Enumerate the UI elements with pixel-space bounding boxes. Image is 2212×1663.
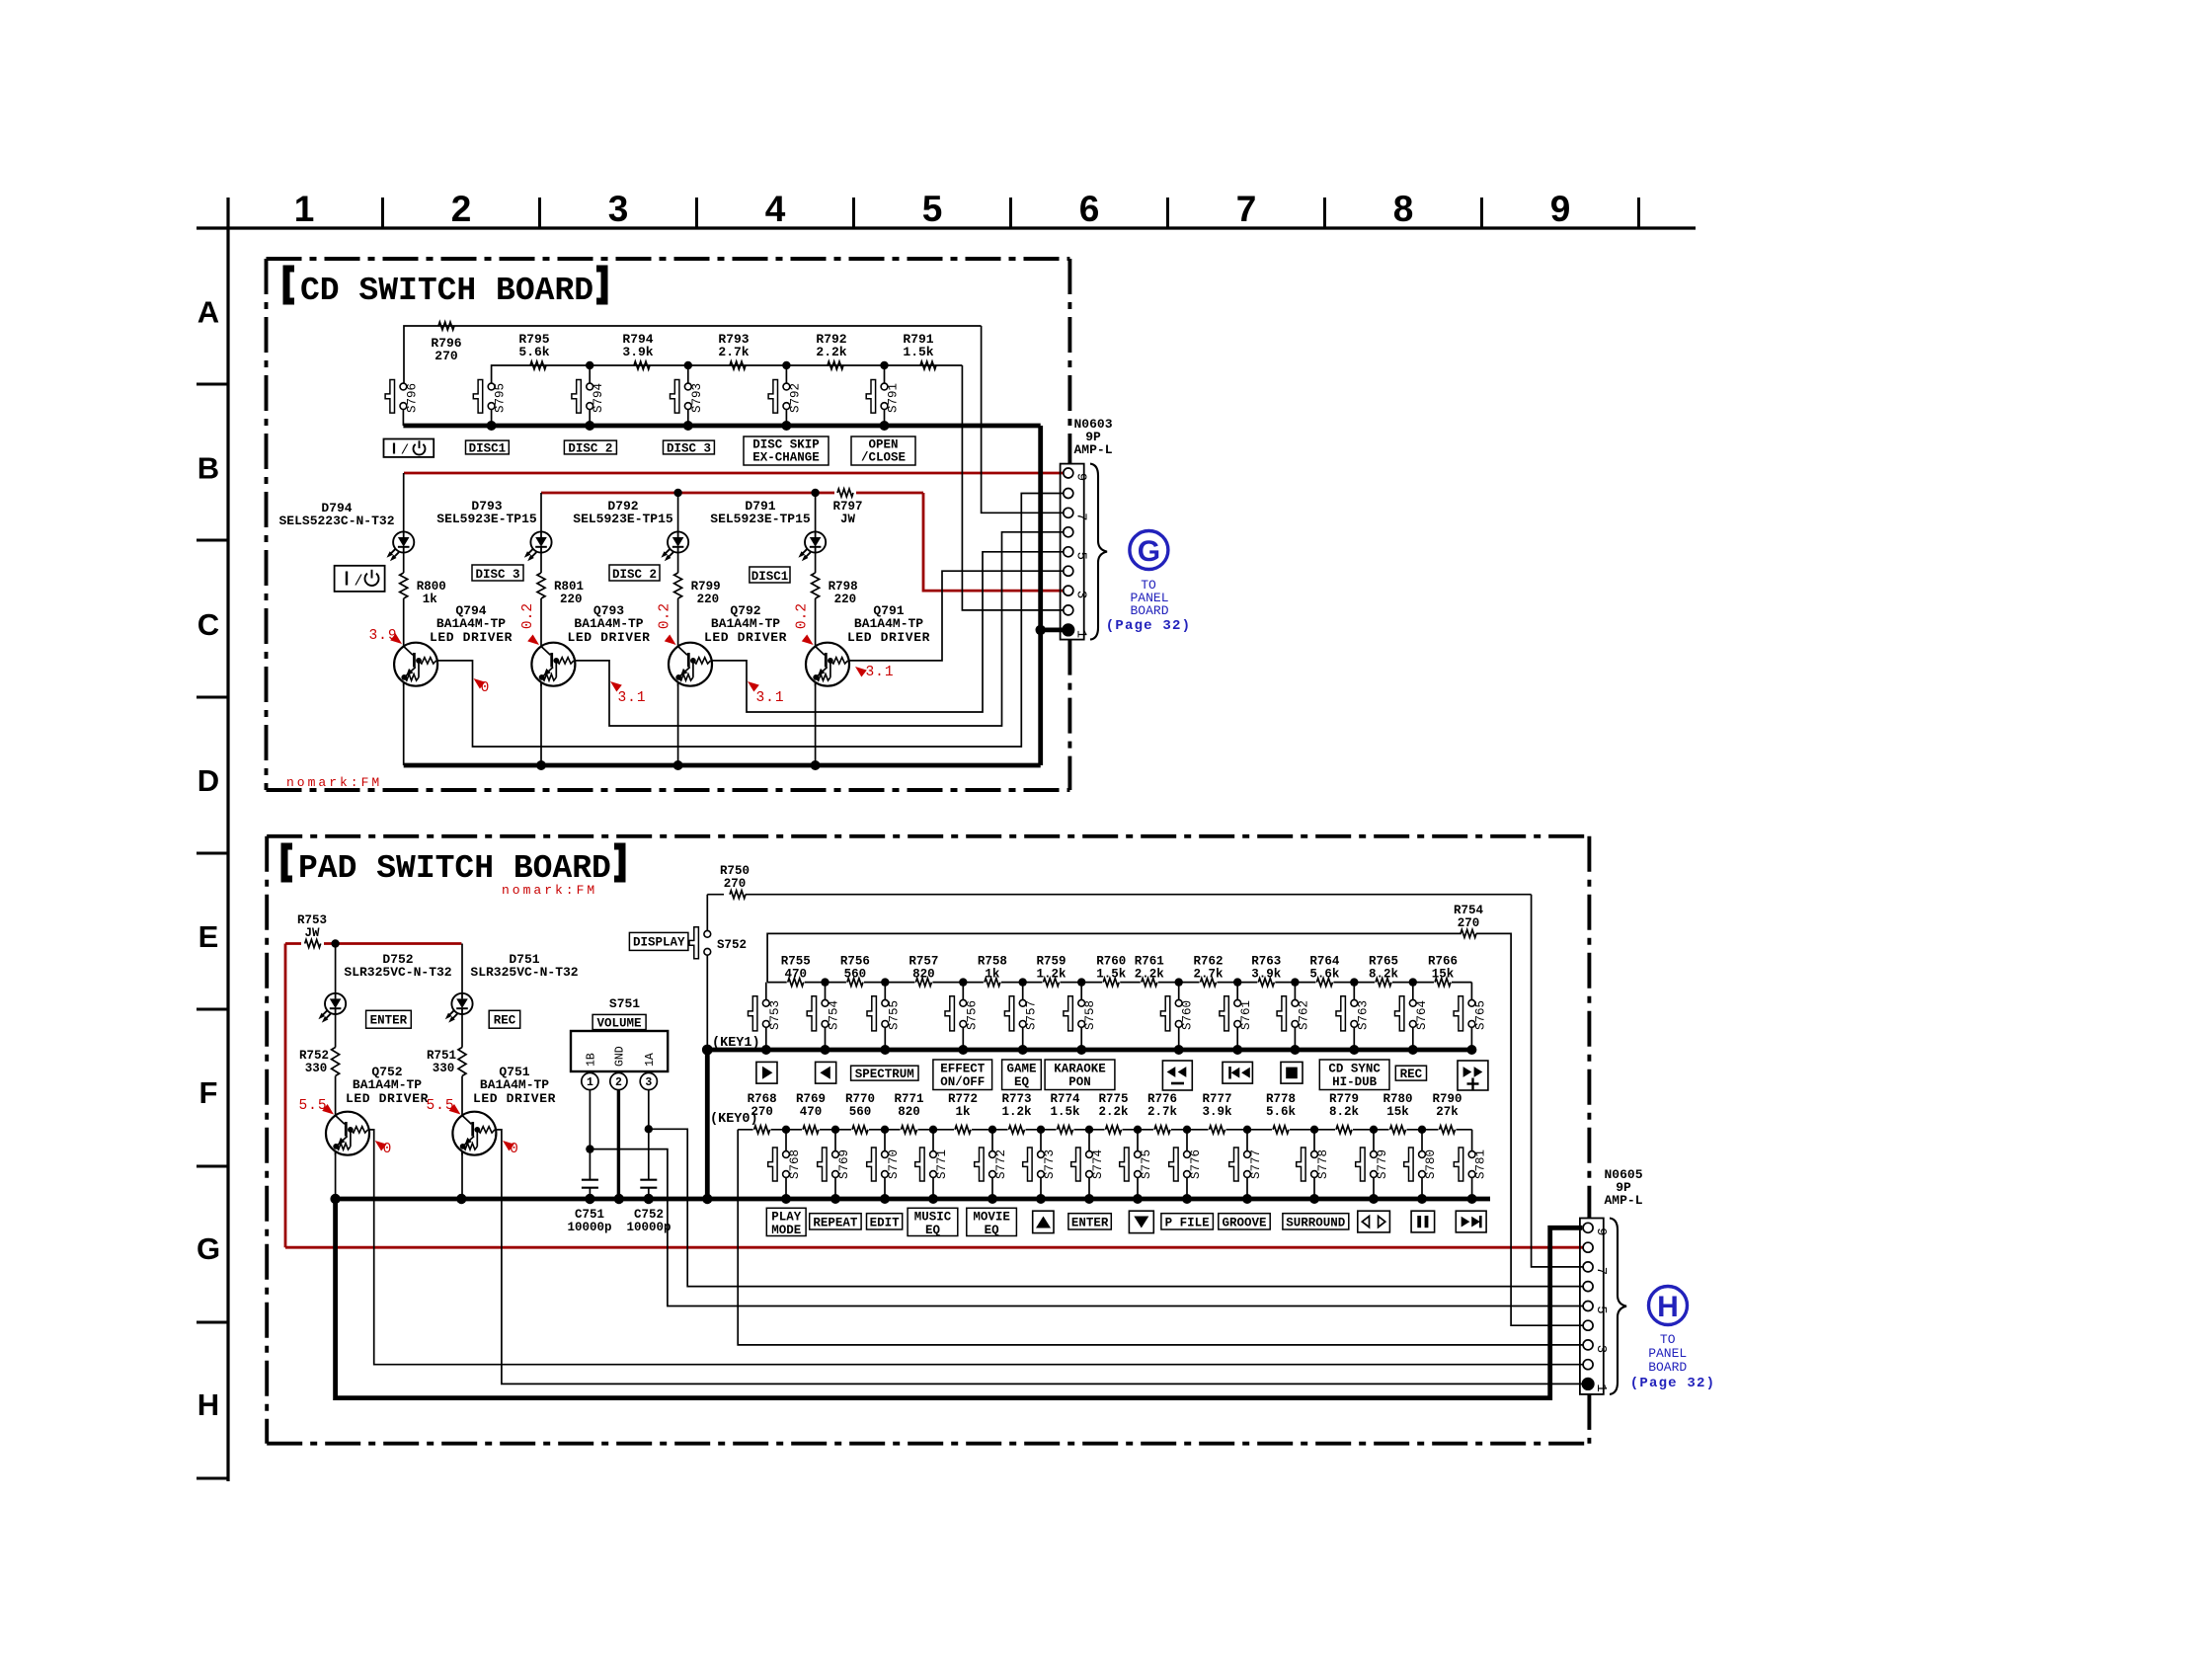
svg-text:P FILE: P FILE xyxy=(1165,1216,1210,1229)
wire Q794 output to pin 8 xyxy=(438,494,1065,748)
wire LED column x=686.6 xyxy=(677,493,679,531)
svg-text:S752: S752 xyxy=(717,938,747,952)
resistor R765 xyxy=(1375,979,1392,988)
resistor R799 xyxy=(674,573,682,598)
switch S755 xyxy=(884,983,886,1000)
svg-text:MOVIE: MOVIE xyxy=(973,1211,1010,1225)
junction dots red LED rail xyxy=(673,489,681,497)
top ruler line xyxy=(197,226,1696,229)
icon box rewind minus xyxy=(1162,1061,1192,1090)
brace for connector H xyxy=(1610,1219,1626,1394)
CD ground bottom bus xyxy=(404,763,1041,768)
svg-text:270: 270 xyxy=(750,1105,773,1119)
resistor R769 xyxy=(802,1126,820,1135)
svg-text:A: A xyxy=(197,295,219,330)
wire volume pin 1B to junction xyxy=(589,1090,591,1180)
volume S751 pin 2 (GND) xyxy=(610,1072,627,1089)
svg-text:5: 5 xyxy=(922,189,943,229)
connector N0605 pin 6 xyxy=(1583,1282,1593,1292)
svg-text:3.9k: 3.9k xyxy=(622,345,653,359)
svg-text:820: 820 xyxy=(898,1105,920,1119)
capacitor C751 xyxy=(582,1179,598,1181)
svg-text:LED DRIVER: LED DRIVER xyxy=(567,630,650,645)
junction dots on ladder rail xyxy=(586,361,593,369)
svg-text:R756: R756 xyxy=(840,955,870,969)
label box GROOVE xyxy=(1219,1214,1270,1229)
svg-text:0.2: 0.2 xyxy=(658,603,673,629)
label box MUSIC EQ xyxy=(908,1208,958,1235)
wire KEY0 ladder to H pin 3 xyxy=(738,1130,1583,1345)
label box VOLUME xyxy=(592,1014,646,1029)
label box OPEN/CLOSE xyxy=(851,436,915,465)
svg-text:S796: S796 xyxy=(405,383,419,413)
svg-text:GND: GND xyxy=(613,1046,626,1067)
LED diode 751 column xyxy=(451,993,472,1014)
wire ladder rail xyxy=(492,365,963,387)
svg-text:REC: REC xyxy=(1400,1068,1423,1081)
label box DISC 3 (LED row) xyxy=(472,565,523,581)
label box REC (KEY1) xyxy=(1395,1066,1426,1080)
svg-text:DISC 3: DISC 3 xyxy=(667,442,711,456)
svg-text:R761: R761 xyxy=(1135,955,1164,969)
wire Q751 output to H pin 1 xyxy=(497,1130,1583,1385)
svg-text:HI-DUB: HI-DUB xyxy=(1332,1075,1378,1089)
svg-text:1.5k: 1.5k xyxy=(1096,968,1127,982)
connector N0605 pin 5 xyxy=(1583,1302,1593,1311)
svg-text:BA1A4M-TP: BA1A4M-TP xyxy=(480,1077,549,1092)
svg-text:R772: R772 xyxy=(948,1092,978,1106)
svg-text:S756: S756 xyxy=(965,1000,979,1030)
resistor R778 xyxy=(1272,1126,1290,1135)
svg-text:S777: S777 xyxy=(1249,1149,1263,1179)
switch S771 xyxy=(932,1130,934,1151)
switch S796 xyxy=(400,383,407,390)
svg-text:5: 5 xyxy=(1073,552,1089,560)
svg-text:R774: R774 xyxy=(1050,1092,1080,1106)
svg-text:1k: 1k xyxy=(423,593,438,606)
svg-text:SELS5223C-N-T32: SELS5223C-N-T32 xyxy=(278,514,394,528)
svg-text:R780: R780 xyxy=(1382,1092,1412,1106)
LED diode column 408.7 xyxy=(393,531,414,552)
PAD ground bus xyxy=(336,1197,1490,1202)
svg-text:EFFECT: EFFECT xyxy=(940,1063,986,1076)
svg-text:27k: 27k xyxy=(1436,1105,1459,1119)
wire LED column x=339.6 xyxy=(335,944,337,993)
svg-text:9: 9 xyxy=(1550,189,1571,229)
volume S751 body xyxy=(571,1031,668,1071)
resistor R763 xyxy=(1257,979,1275,988)
svg-text:R770: R770 xyxy=(845,1092,875,1106)
svg-text:15k: 15k xyxy=(1386,1105,1409,1119)
switch S793 xyxy=(687,365,689,383)
svg-text:R753: R753 xyxy=(297,913,327,927)
switch S754 xyxy=(825,983,827,1000)
svg-text:B: B xyxy=(197,451,219,486)
svg-text:SLR325VC-N-T32: SLR325VC-N-T32 xyxy=(470,965,578,980)
resistor R776 xyxy=(1153,1126,1171,1135)
svg-text:S760: S760 xyxy=(1181,1000,1195,1030)
svg-text:SEL5923E-TP15: SEL5923E-TP15 xyxy=(573,512,673,526)
connector N0603 pin 5 xyxy=(1064,547,1073,557)
svg-text:(Page 32): (Page 32) xyxy=(1630,1376,1715,1391)
LED diode 752 column xyxy=(325,993,346,1014)
svg-text:0.2: 0.2 xyxy=(520,603,536,629)
svg-text:7: 7 xyxy=(1073,513,1089,520)
red wire VCC to pin 9 xyxy=(404,472,1064,475)
svg-text:S755: S755 xyxy=(887,1000,901,1030)
switch S795 xyxy=(488,383,495,390)
connector N0603 pin 7 xyxy=(1064,508,1073,517)
wire emitter Q793 to ground bus xyxy=(540,682,542,765)
svg-text:MUSIC: MUSIC xyxy=(914,1211,952,1225)
label box GAME EQ xyxy=(1002,1060,1042,1090)
svg-text:3: 3 xyxy=(1593,1345,1609,1353)
svg-text:MODE: MODE xyxy=(771,1224,801,1237)
wire emitter Q791 to ground bus xyxy=(815,682,817,765)
wire Q791 output to pin 4 xyxy=(849,571,1064,661)
svg-text:R790: R790 xyxy=(1432,1092,1461,1106)
wire top rail to pin 7 xyxy=(982,326,1064,513)
icon box stop xyxy=(1281,1062,1303,1083)
svg-text:S774: S774 xyxy=(1091,1149,1105,1179)
resistor R766 xyxy=(1434,979,1452,988)
svg-text:7: 7 xyxy=(1593,1267,1609,1275)
svg-text:S765: S765 xyxy=(1473,1000,1487,1030)
svg-text:3: 3 xyxy=(608,189,629,229)
label box DISC SKIP EX-CHANGE xyxy=(744,436,829,465)
svg-text:5.6k: 5.6k xyxy=(518,345,549,359)
resistor R770 xyxy=(851,1126,869,1135)
svg-text:G: G xyxy=(1138,535,1160,568)
icon box pause xyxy=(1411,1211,1435,1232)
resistor R751 xyxy=(458,1048,466,1076)
connector N0605 pin 1 xyxy=(1582,1378,1595,1390)
KEY1 common bus xyxy=(707,1048,1471,1053)
label box DISC 2 xyxy=(564,440,616,454)
svg-text:2.7k: 2.7k xyxy=(1147,1105,1178,1119)
svg-text:R750: R750 xyxy=(720,864,750,878)
left ruler line xyxy=(226,198,229,1481)
svg-text:560: 560 xyxy=(849,1105,872,1119)
icon box up xyxy=(1033,1211,1054,1232)
svg-text:S795: S795 xyxy=(494,383,508,413)
svg-text:BA1A4M-TP: BA1A4M-TP xyxy=(574,616,643,631)
switch S752 xyxy=(706,895,708,931)
wire emitter Q752 to ground bus xyxy=(335,1151,337,1199)
svg-text:1: 1 xyxy=(294,189,315,229)
svg-text:3.1: 3.1 xyxy=(755,690,784,706)
svg-text:/CLOSE: /CLOSE xyxy=(861,451,906,465)
svg-text:H: H xyxy=(197,1387,219,1422)
wire R754 to H pin 4 xyxy=(1476,933,1583,1325)
switch S764 xyxy=(1412,983,1414,1000)
svg-text:1: 1 xyxy=(1593,1384,1609,1391)
svg-text:S757: S757 xyxy=(1025,1000,1039,1030)
resistor R758 xyxy=(984,979,1001,988)
label box DISC 2 (LED row) xyxy=(609,565,660,581)
label box DISC1 (LED row) xyxy=(750,567,790,583)
svg-text:S773: S773 xyxy=(1043,1149,1057,1179)
svg-text:S754: S754 xyxy=(828,1000,841,1030)
switch S769 xyxy=(834,1130,836,1151)
resistor R792 xyxy=(828,361,843,369)
svg-text:R797: R797 xyxy=(832,500,862,514)
label box MOVIE EQ xyxy=(967,1208,1017,1235)
label box ENTER xyxy=(366,1010,412,1028)
transistor Q791 xyxy=(806,643,849,686)
svg-text:KARAOKE: KARAOKE xyxy=(1054,1063,1106,1076)
svg-text:E: E xyxy=(198,919,219,954)
resistor R768 xyxy=(753,1126,771,1135)
svg-text:220: 220 xyxy=(834,593,857,606)
wire KEY1 bus to ground bus (thick) xyxy=(705,1050,710,1199)
switch S781 xyxy=(1471,1130,1473,1151)
switch S779 xyxy=(1373,1130,1375,1151)
label box PLAY MODE xyxy=(766,1208,806,1235)
red wire LED rail to pin 3 xyxy=(541,492,923,495)
svg-text:R758: R758 xyxy=(978,955,1007,969)
svg-text:S762: S762 xyxy=(1297,1000,1310,1030)
switch S775 xyxy=(1137,1130,1139,1151)
svg-text:2.7k: 2.7k xyxy=(1193,968,1224,982)
resistor R800 xyxy=(400,573,408,598)
svg-text:LED DRIVER: LED DRIVER xyxy=(847,630,930,645)
svg-text:820: 820 xyxy=(912,968,935,982)
switch S794 xyxy=(589,365,591,383)
CD switch common bus xyxy=(403,424,1040,429)
CD switch board dashed border xyxy=(267,259,1070,790)
resistor R756 xyxy=(846,979,864,988)
svg-text:4: 4 xyxy=(765,189,786,229)
icon box reverse < xyxy=(816,1062,836,1083)
switch S774 xyxy=(1088,1130,1090,1151)
svg-text:OPEN: OPEN xyxy=(868,438,898,452)
svg-text:470: 470 xyxy=(784,968,807,982)
label box DISC 3 xyxy=(664,440,715,454)
resistor R757 xyxy=(914,979,932,988)
svg-text:GAME: GAME xyxy=(1006,1063,1036,1076)
switch S791 xyxy=(884,365,886,383)
svg-text:1k: 1k xyxy=(985,968,1000,982)
svg-text:1k: 1k xyxy=(955,1105,971,1119)
svg-text:R773: R773 xyxy=(1001,1092,1031,1106)
resistor R780 xyxy=(1389,1126,1407,1135)
svg-text:GROOVE: GROOVE xyxy=(1222,1216,1266,1229)
svg-text:S791: S791 xyxy=(887,383,901,413)
icon box skip back xyxy=(1223,1062,1252,1083)
svg-text:R764: R764 xyxy=(1309,955,1340,969)
svg-text:R762: R762 xyxy=(1193,955,1223,969)
wire 1B junction to H pin 5 xyxy=(590,1149,1583,1307)
svg-text:3.9k: 3.9k xyxy=(1251,968,1282,982)
connector G circle xyxy=(1130,531,1168,570)
svg-text:DISC 2: DISC 2 xyxy=(612,568,657,582)
svg-text:560: 560 xyxy=(844,968,867,982)
switch S761 xyxy=(1236,983,1238,1000)
CD switch board title xyxy=(286,269,294,301)
svg-text:270: 270 xyxy=(434,349,458,363)
svg-text:R779: R779 xyxy=(1329,1092,1359,1106)
svg-text:S775: S775 xyxy=(1140,1149,1153,1179)
svg-text:REPEAT: REPEAT xyxy=(813,1216,858,1229)
connector N0605 pin 8 xyxy=(1583,1242,1593,1252)
svg-text:R766: R766 xyxy=(1428,955,1458,969)
LED diode column 825.6 xyxy=(805,531,826,552)
svg-text:CD SYNC: CD SYNC xyxy=(1328,1063,1381,1076)
svg-text:5.6k: 5.6k xyxy=(1309,968,1340,982)
label box SPECTRUM xyxy=(851,1066,918,1080)
svg-text:PANEL: PANEL xyxy=(1648,1346,1687,1361)
svg-text:S761: S761 xyxy=(1239,1000,1253,1030)
connector N0605 pin 4 xyxy=(1583,1320,1593,1330)
resistor R797 (JW) xyxy=(834,488,856,498)
switch S772 xyxy=(991,1130,993,1151)
svg-text:9: 9 xyxy=(1073,473,1089,481)
switch S773 xyxy=(1040,1130,1042,1151)
svg-text:SEL5923E-TP15: SEL5923E-TP15 xyxy=(710,512,811,526)
icon box skip forward xyxy=(1456,1211,1486,1232)
svg-text:C752: C752 xyxy=(634,1208,664,1222)
KEY0 resistor ladder rail xyxy=(738,1129,1471,1131)
resistor R777 xyxy=(1209,1126,1226,1135)
svg-text:S768: S768 xyxy=(788,1149,802,1179)
resistor R793 xyxy=(730,361,746,369)
svg-text:R775: R775 xyxy=(1098,1092,1128,1106)
switch S792 xyxy=(785,365,787,383)
wire LED column x=468 xyxy=(461,944,463,993)
svg-text:1.2k: 1.2k xyxy=(1036,968,1066,982)
KEY1 resistor ladder rail xyxy=(767,982,1471,984)
svg-text:10000p: 10000p xyxy=(567,1221,611,1234)
svg-text:S794: S794 xyxy=(592,383,605,413)
svg-text:PAD SWITCH BOARD: PAD SWITCH BOARD xyxy=(298,850,611,887)
svg-text:R754: R754 xyxy=(1454,904,1484,917)
svg-text:EQ: EQ xyxy=(1014,1075,1030,1089)
svg-text:JW: JW xyxy=(840,513,856,526)
svg-text:F: F xyxy=(199,1075,218,1110)
connector N0603 pin 4 xyxy=(1064,566,1073,576)
svg-text:nomark:FM: nomark:FM xyxy=(286,775,382,790)
capacitor C752 xyxy=(640,1179,657,1181)
switch S765 xyxy=(1470,983,1472,1000)
svg-text:SLR325VC-N-T32: SLR325VC-N-T32 xyxy=(344,965,451,980)
svg-text:3.9: 3.9 xyxy=(368,628,397,644)
svg-text:ON/OFF: ON/OFF xyxy=(940,1075,985,1089)
svg-text:C: C xyxy=(197,607,219,642)
PAD switch board title xyxy=(284,846,292,879)
svg-text:EQ: EQ xyxy=(925,1224,941,1237)
svg-text:15k: 15k xyxy=(1432,968,1455,982)
svg-text:BA1A4M-TP: BA1A4M-TP xyxy=(711,616,780,631)
svg-text:R769: R769 xyxy=(796,1092,826,1106)
svg-text:S781: S781 xyxy=(1474,1149,1488,1179)
svg-text:ENTER: ENTER xyxy=(370,1014,408,1028)
svg-text:DISC1: DISC1 xyxy=(751,570,789,584)
wire KEY1 feed rail xyxy=(767,933,1461,982)
connector N0603 body xyxy=(1061,464,1084,640)
connector N0603 pin 6 xyxy=(1064,527,1073,537)
svg-text:10000p: 10000p xyxy=(626,1221,671,1234)
connector N0603 pin 2 xyxy=(1064,605,1073,615)
svg-text:S763: S763 xyxy=(1356,1000,1370,1030)
svg-text:R768: R768 xyxy=(748,1092,777,1106)
label box ENTER (KEY0) xyxy=(1068,1214,1111,1229)
label box EDIT xyxy=(867,1214,903,1229)
junction dot D752 column on red rail xyxy=(331,939,339,947)
volume S751 pin 3 (1A) xyxy=(640,1072,657,1089)
svg-text:0.2: 0.2 xyxy=(795,603,811,629)
svg-text:2.7k: 2.7k xyxy=(718,345,749,359)
resistor R795 xyxy=(530,361,546,369)
svg-text:1: 1 xyxy=(587,1076,593,1089)
svg-text:ENTER: ENTER xyxy=(1071,1216,1109,1229)
connector N0603 pin 9 xyxy=(1064,468,1073,478)
switch S770 xyxy=(884,1130,886,1151)
resistor R801 xyxy=(537,573,545,598)
svg-text:5.5: 5.5 xyxy=(426,1098,454,1114)
svg-text:TO: TO xyxy=(1660,1332,1676,1347)
resistor R779 xyxy=(1335,1126,1353,1135)
svg-text:R751: R751 xyxy=(427,1049,456,1063)
transistor Q793 xyxy=(531,643,575,686)
resistor R796 xyxy=(438,322,454,330)
resistor R759 xyxy=(1043,979,1061,988)
svg-text:1A: 1A xyxy=(644,1053,657,1067)
svg-text:S770: S770 xyxy=(887,1149,901,1179)
label box REC xyxy=(489,1010,520,1028)
svg-text:6: 6 xyxy=(1079,189,1100,229)
svg-text:PON: PON xyxy=(1068,1075,1091,1089)
label box REPEAT xyxy=(810,1214,861,1229)
svg-text:/: / xyxy=(354,574,362,591)
svg-text:G: G xyxy=(197,1231,220,1266)
svg-text:8.2k: 8.2k xyxy=(1329,1105,1360,1119)
svg-text:BA1A4M-TP: BA1A4M-TP xyxy=(436,616,506,631)
svg-text:220: 220 xyxy=(560,593,583,606)
wire Q792 output to pin 5 xyxy=(712,552,1064,712)
connector N0603 pin 8 xyxy=(1064,489,1073,499)
resistor R771 xyxy=(901,1126,918,1135)
svg-text:SEL5923E-TP15: SEL5923E-TP15 xyxy=(436,512,537,526)
svg-text:1.5k: 1.5k xyxy=(1050,1105,1080,1119)
switch S768 xyxy=(785,1130,787,1151)
resistor R754 xyxy=(1461,929,1476,937)
LED diode column 548 xyxy=(530,531,551,552)
svg-text:330: 330 xyxy=(433,1062,455,1075)
wire emitter Q794 to ground bus xyxy=(403,682,405,765)
transistor Q794 xyxy=(394,643,437,686)
svg-text:1.5k: 1.5k xyxy=(903,345,933,359)
connector H circle xyxy=(1649,1287,1688,1325)
label box EFFECT ON/OFF xyxy=(933,1060,992,1090)
resistor R752 xyxy=(332,1048,340,1076)
svg-text:JW: JW xyxy=(304,926,320,940)
wire switch bus to pin 1 (thick) xyxy=(1038,426,1043,765)
label box KARAOKE PON xyxy=(1045,1060,1115,1090)
svg-text:BA1A4M-TP: BA1A4M-TP xyxy=(353,1077,422,1092)
transistor Q751 xyxy=(452,1112,496,1155)
wire Q752 output to H pin 2 xyxy=(369,1130,1583,1365)
wire ladder tail to pin 2 xyxy=(962,365,1064,610)
label box I/power (top) xyxy=(384,439,434,457)
svg-text:R800: R800 xyxy=(417,580,446,594)
svg-text:R752: R752 xyxy=(299,1049,329,1063)
connector N0605 pin 3 xyxy=(1583,1340,1593,1350)
svg-text:R799: R799 xyxy=(691,580,721,594)
resistor R773 xyxy=(1008,1126,1026,1135)
svg-text:BOARD: BOARD xyxy=(1130,603,1168,618)
resistor R775 xyxy=(1105,1126,1123,1135)
